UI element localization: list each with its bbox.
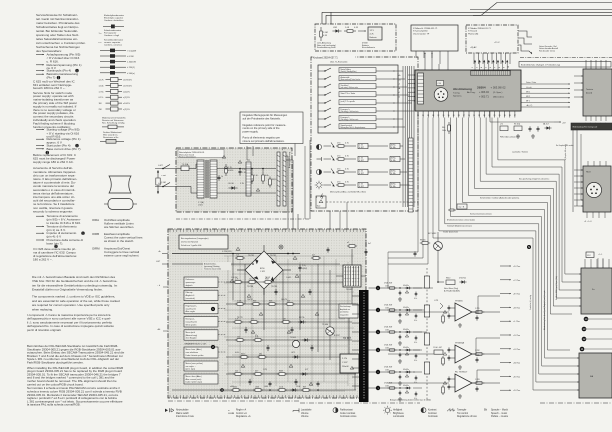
svg-text:+A (+C): +A (+C) [526,104,533,107]
svg-text:Condens. elettrolitico: Condens. elettrolitico [104,19,124,22]
svg-text:+ 003.04: + 003.04 [479,91,489,94]
svg-text:±10/1%: ±10/1% [123,103,130,105]
fuse in power supply [176,163,196,171]
svg-text:(Farbkontrast) Colour contrast: (Farbkontrast) Colour contrast (sabe) [447,218,475,221]
svg-text:p: p [282,149,283,151]
resistor R616 in power supply [225,164,234,176]
svg-text:L666: L666 [264,386,268,388]
svg-text:Bedienfeld (Tab.) 19-A (geh.: Bedienfeld (Tab.) 19-A (geh. 1 Fernbedie… [521,63,560,66]
svg-text:Lautstärke / Volume: Lautstärke / Volume [512,150,528,153]
diode LED in light sensor box [332,27,341,33]
svg-text:+S /7xx: +S /7xx [513,335,521,337]
svg-text:NR 2: NR 2 [526,96,530,98]
op-amp U781 luminance TDA4565 [442,301,485,328]
svg-text:Taul: Taul [317,206,321,208]
svg-text:1.10k: 1.10k [279,387,283,389]
svg-text:Speicherrück: Speicherrück [341,125,353,127]
label: memory wiring note in keyboard [330,191,366,194]
component: max B box on staircase [448,204,467,211]
left column: Italian service paragraph [33,166,77,213]
label: starting current limiting [203,262,231,271]
svg-text:4.7u: 4.7u [414,298,417,300]
svg-text:Ab Prog.: Ab Prog. [467,91,476,94]
capacitor C620 in power supply [218,175,223,180]
svg-text:Vorverstärker TF: Vorverstärker TF [413,32,430,35]
svg-text:A 2/9k (A 2/10) (A3K): A 2/9k (A 2/10) (A3K) [444,290,460,293]
resistors row on regulator rails [233,278,295,375]
svg-text:5: 5 [486,67,488,68]
svg-text:L620: L620 [252,178,254,182]
component key: non-linear resistor entry [102,116,126,128]
labels: board left edge nets [156,250,161,331]
labels on staircase wires [443,150,549,233]
board trace mesh vertical [228,256,348,390]
svg-text:R68: R68 [269,300,272,302]
svg-text:TN 782: TN 782 [270,255,276,257]
svg-text:Farbkontrast: Farbkontrast [340,409,353,412]
svg-text:R610: R610 [446,277,450,279]
svg-text:4762 Rot: 4762 Rot [459,276,466,279]
svg-text:4: 4 [481,67,483,68]
svg-text:Tensione d (corrente): Tensione d (corrente) [204,268,221,271]
svg-text:4.7k: 4.7k [345,182,349,184]
svg-text:(Tab. 71-Rückseite): (Tab. 71-Rückseite) [330,61,348,64]
svg-text:+1 +1: +1 +1 [598,254,602,256]
svg-text:Speech − music: Speech − music [491,413,508,415]
keyboard switch rows with function labels [318,68,414,130]
component key: resistor wattage symbols [100,49,136,75]
left column: arrow checklist German [36,53,82,80]
svg-text:Colour contrast: Colour contrast [340,412,356,415]
wire: mains line 1 with switch [155,165,176,170]
svg-text:Sprache − Musik: Sprache − Musik [491,409,509,412]
svg-text:4k7: 4k7 [255,370,258,372]
svg-text:Start TS o. Seite: Start TS o. Seite [341,92,357,95]
svg-text:Base current drive (Pin 7): Base current drive (Pin 7) [47,147,81,151]
svg-text:Referenz-: Referenz- [186,279,195,281]
left column: arrow checklist Italian [36,214,85,248]
label: light sensor box caption [317,42,376,50]
svg-text:2.7U: 2.7U [240,183,245,185]
svg-text:1.5M: 1.5M [161,182,166,184]
svg-text:100k: 100k [442,130,446,132]
svg-text:Automatik: Automatik [341,76,350,79]
svg-text:Tuning: Tuning [453,93,460,95]
svg-text:12 V: 12 V [370,30,375,32]
svg-text:Rechteckimp.: Rechteckimp. [340,305,351,308]
svg-text:N: N [528,245,530,249]
svg-text:TF4565: TF4565 [455,301,463,303]
terminal circles right of connector [369,286,389,390]
small box F12 above U4 [586,252,603,268]
svg-text:≤ 400mW: ≤ 400mW [127,61,136,64]
svg-text:Fernspul −: Fernspul − [341,117,351,119]
svg-text:C 637: C 637 [342,362,348,364]
IC U631 left input arrows [398,73,416,103]
svg-text:Bei eingebautem (Längsregler): Bei eingebautem (Längsregler) [181,237,209,240]
svg-text:Condens. ceramico: Condens. ceramico [104,43,123,46]
svg-text:47u/63u: 47u/63u [403,307,409,309]
capacitor C625 in power supply [238,160,247,175]
svg-text:Control +A: Control +A [236,412,247,415]
wire: callout leader verticals to power box [247,146,253,160]
svg-text:+ ant: + ant [161,174,166,177]
svg-text:Amplitude an: Amplitude an [340,308,350,311]
svg-text:≤ 0.5W: ≤ 0.5W [127,55,134,58]
svg-text:Nor- (p) (Tuning vertige) fern: Nor- (p) (Tuning vertige) fern. (b) vert… [519,178,549,181]
op-amp U782 TDA4565A [442,342,485,370]
svg-text:4n7: 4n7 [312,255,315,257]
svg-text:Gedämpft (Brightness) (schwarz: Gedämpft (Brightness) (schwarz) [447,225,472,228]
svg-text:R3 1kΩ: R3 1kΩ [514,124,521,126]
svg-text:Luminosità: Luminosità [393,415,405,418]
box: light sensor unit dash-dot enclosure [315,24,396,51]
connector hatched bars at power supply output [277,149,291,206]
wire: ST Audio bottom pin comb [472,53,510,68]
wire: power supply internal rails [217,164,276,193]
IC U2 display module top right [574,60,612,125]
svg-text:250mW: 250mW [342,366,349,368]
wires entering connector from left [352,296,359,386]
wire: keyboard right bus verticals [403,66,414,207]
label strip: Widerstandsplatte bar [571,123,612,130]
legend: colour contrast [333,408,357,419]
label box: Rechteckimpulse note [339,304,358,318]
transformer TR601 in power supply [197,160,217,207]
labels below U3 [584,221,592,223]
IC U631 right output arrows with labels [521,81,570,107]
svg-text:26: 26 [468,115,470,117]
svg-text:as shown in the sketch.: as shown in the sketch. [104,239,134,243]
svg-text:6: 6 [490,67,492,68]
svg-text:1.7 (A): 1.7 (A) [198,201,204,204]
wire: board inner horizontal rails [172,282,356,390]
arrow to battery in light sensor box [358,30,366,31]
svg-text:1.7k SW: 1.7k SW [231,277,238,279]
note box: Bei eingebautem [179,235,228,249]
warning triangles near bridge [230,247,299,283]
svg-text:misure sul primario dell'alime: misure sul primario dell'alimentatore. [243,139,285,143]
svg-text:1.7M: 1.7M [263,369,267,371]
svg-text:Netzteilplatte 29304-090.01: Netzteilplatte 29304-090.01 [179,151,205,154]
svg-text:(vermittels): (vermittels) [340,311,349,314]
svg-text:Mess-/prüf: Mess-/prüf [186,332,196,334]
wire: keyboard bottom to board [330,202,347,229]
svg-text:OIRM: OIRM [92,246,100,250]
svg-text:1.63k: 1.63k [385,348,389,350]
svg-text:TR 66T: TR 66T [343,337,352,340]
terminal circle above bridge [279,245,283,249]
svg-text:±(1)1%: ±(1)1% [123,97,130,99]
svg-text:Schalt nur 1 große Volt: Schalt nur 1 große Volt [181,244,202,247]
svg-text:Volume: Volume [301,416,309,418]
keyboard edge connector ladder [409,138,414,212]
svg-text:ma × B: ma × B [459,206,466,209]
svg-text:ohne Angabe: ohne Angabe [186,337,197,340]
svg-text:TN 779: TN 779 [237,317,243,319]
svg-text:1k: 1k [249,278,251,280]
svg-text:(board): (board) [586,91,592,94]
sketch: barrel corrected picture [104,199,137,210]
svg-text:29: 29 [453,115,455,117]
svg-text:♂ b: ♂ b [157,284,160,287]
svg-text:+U /7xx: +U /7xx [513,349,521,351]
svg-text:TN 781: TN 781 [248,255,254,257]
svg-text:zum selektiven: zum selektiven [186,351,199,354]
svg-text:4.18k: 4.18k [391,160,396,162]
IC U4 RGB module upper [572,259,612,314]
svg-text:Interruttore di rete: Interruttore di rete [176,415,195,418]
svg-text:C10: C10 [438,83,441,85]
svg-text:when replacing.: when replacing. [32,308,53,312]
component key: wirewound resistor entry [100,131,124,143]
svg-text:1k5: 1k5 [287,300,290,302]
svg-text:Volume: Volume [301,413,309,415]
svg-text:10: 10 [508,66,510,68]
svg-text:4.18k: 4.18k [391,147,396,149]
svg-text:H103: H103 [586,172,591,174]
svg-text:(D. Spez.): (D. Spez.) [493,92,503,94]
svg-text:4n7: 4n7 [368,243,371,245]
label box: regulator note 5 [184,330,226,340]
svg-text:secondo lo schema seguente:: secondo lo schema seguente: [33,209,73,213]
left column: English service paragraph [33,91,77,129]
svg-text:Regelspann-: Regelspann- [186,305,198,307]
svg-text:power supply.: power supply. [243,129,259,133]
svg-text:1.63k: 1.63k [385,308,389,310]
label: alignment note bottom [390,399,431,402]
legend: tone control [447,409,478,419]
wire: mains line 2 with switch [155,183,176,188]
svg-text:RA: RA [590,375,594,378]
svg-text:+15 V: +15 V [494,42,500,44]
svg-text:esterne come negli schemi.: esterne come negli schemi. [104,253,139,257]
svg-text:2: 2 [590,123,591,125]
svg-text:4.7k: 4.7k [345,143,349,145]
svg-text:Großer (Dark) Taste: Großer (Dark) Taste [443,230,458,233]
svg-text:LDR: LDR [333,27,338,29]
svg-text:T 3.15A: T 3.15A [182,163,189,166]
svg-text:1.781: 1.781 [475,308,480,310]
svg-text:1.10k L.467: 1.10k L.467 [433,347,442,349]
left column: German service note paragraph [36,13,86,53]
svg-text:Ersatzfall dürfen nur Original: Ersatzfall dürfen nur Originalteile Verw… [32,288,103,292]
choke L620 tall component in power supply [246,162,254,196]
svg-text:GRABBER BUS C 63T: GRABBER BUS C 63T [184,343,207,346]
svg-text:1.10k: 1.10k [475,355,479,357]
svg-text:L-O: L-O [158,183,162,185]
svg-text:36: 36 [417,115,419,117]
svg-text:20: 20 [499,115,501,117]
svg-text:1.63k: 1.63k [385,386,389,388]
svg-text:2.2u: 2.2u [242,169,246,171]
IC U3 DIN socket module right [574,161,611,218]
svg-text:1.7k: 1.7k [236,255,239,257]
svg-text:47u/63u: 47u/63u [403,369,409,371]
svg-text:B 8237: B 8237 [334,335,340,337]
svg-text:+B),A2: +B),A2 [470,46,477,49]
component key: resistor tolerance symbols [99,78,133,112]
svg-text:L 601: L 601 [198,205,203,207]
svg-text:(Mercedes): (Mercedes) [493,96,504,99]
label box: bottom memory note [184,374,218,384]
svg-text:OIRA: OIRA [92,218,99,222]
svg-text:ST Audio 29304-011.71: ST Audio 29304-011.71 [468,27,492,30]
svg-text:Piastra alimentatore: Piastra alimentatore [179,156,196,159]
svg-text:1.5M: 1.5M [323,32,328,34]
svg-text:L.781: L.781 [434,300,438,302]
resistor R620 in power supply [269,177,277,188]
svg-text:Mess- über (Abw.): Mess- über (Abw.) [186,375,203,378]
label box: regulator note 1 [184,277,226,287]
capacitor C622 at bridge output [299,264,308,283]
svg-text:e2: e2 [398,97,400,99]
svg-text:25: 25 [473,115,475,117]
svg-text:31: 31 [443,115,445,117]
svg-text:OIRB: OIRB [92,232,99,236]
svg-text:270/4.7kW: 270/4.7kW [384,327,392,329]
keyboard pots: volume/brightness/contrast/colour [324,143,410,189]
svg-text:Resistenza a filo: Resistenza a filo [103,136,119,139]
RC network rows after terminals [384,283,422,402]
label: graphic note [556,145,573,147]
wire: power board lower dash-dot link [176,218,310,220]
svg-text:28: 28 [458,115,460,117]
svg-text:c/d: c/d [398,79,400,81]
svg-text:4.7k: 4.7k [345,169,349,171]
label strip: Bedienteil scale bar [519,62,611,68]
svg-text:TF4565A: TF4565A [455,342,465,345]
svg-text:1M: 1M [99,103,102,105]
svg-text:Mains switch: Mains switch [176,412,190,415]
svg-text:±10%/5%: ±10%/5% [123,80,132,82]
svg-text:tung prüfen: tung prüfen [340,313,349,316]
svg-text:R66: R66 [253,300,256,302]
label box: regulator note 4 [184,317,226,327]
svg-text:±10%/5%: ±10%/5% [123,85,132,87]
svg-text:(je) b. (spu): (je) b. (spu) [185,369,195,371]
svg-text:4.18T: 4.18T [359,186,365,188]
svg-text:Contrasto: Contrasto [428,415,439,418]
left column: PAL/SECAM Italian paragraph [27,386,123,407]
svg-text:Ton control: Ton control [457,412,469,415]
svg-text:270/4.7kW: 270/4.7kW [384,283,392,285]
svg-text:3: 3 [477,67,479,68]
resistor 1.5M in light sensor box [344,27,359,32]
svg-text:18: 18 [509,115,511,117]
capacitors on board rails [245,289,314,385]
svg-text:≈ 0.5(2)W: ≈ 0.5(2)W [127,49,136,52]
svg-text:Netzschalter: Netzschalter [176,409,189,412]
numbered terminal 1 on board [211,307,215,311]
svg-text:1.783: 1.783 [475,379,480,381]
svg-text:supply range 180 to 262 V AC.: supply range 180 to 262 V AC. [33,160,74,164]
svg-text:29304: 29304 [477,86,486,90]
svg-text:23: 23 [483,115,485,117]
svg-text:2: 2 [472,67,474,68]
svg-text:ST-Anschl. 29304-011.71: ST-Anschl. 29304-011.71 [413,27,438,30]
svg-text:+D /7xx: +D /7xx [513,266,521,268]
svg-text:Dabei l prüfen (spu): Dabei l prüfen (spu) [186,381,203,384]
svg-text:TA 60T: TA 60T [265,276,270,279]
svg-text:0.47u: 0.47u [235,352,239,354]
svg-text:Dabei Lötseite prüfen: Dabei Lötseite prüfen [186,354,204,357]
svg-text:Tastatur: Tastatur [586,88,593,91]
wire: board inner vertical feeders [233,254,330,361]
legend: volume [293,408,312,418]
svg-text:4.18k: 4.18k [391,186,396,188]
svg-text:1.63k: 1.63k [385,370,389,372]
board border tick comb bottom [170,395,364,398]
svg-text:47u/63u: 47u/63u [403,347,409,349]
wire: mains rail across board top [172,251,300,254]
svg-text:(vermittels): (vermittels) [186,297,196,300]
svg-text:Lautstärke: Lautstärke [301,409,312,412]
svg-text:1.63k: 1.63k [385,286,389,288]
wire: ST-Anschl bottom pins [416,51,448,64]
svg-text:160-716: 160-716 [281,299,287,301]
svg-text:Netz- Mess (Reg): Netz- Mess (Reg) [444,287,458,290]
svg-text:+ 003.09/ 02: + 003.09/ 02 [491,86,507,90]
svg-text:Ot: Ot [484,409,487,412]
svg-text:ung (V) prim: ung (V) prim [186,307,197,310]
left column: Italian C626 note [33,247,77,261]
svg-text:4.18T: 4.18T [359,173,365,175]
svg-text:b (Graphic HN versch): b (Graphic HN versch) [565,144,567,160]
svg-text:6.2T: 6.2T [305,369,308,371]
svg-text:TN 784: TN 784 [247,286,253,288]
svg-text:R672: R672 [241,353,245,355]
svg-text:1 n625: 1 n625 [286,277,291,279]
svg-text:M 626: M 626 [228,170,233,172]
wire: board top secondary rail [172,263,340,265]
svg-text:R6/71k: R6/71k [299,317,305,319]
svg-text:auf der Primärseite des Netzte: auf der Primärseite des Netzteils. [243,116,281,120]
svg-text:a/b: a/b [398,75,401,77]
svg-text:1k2: 1k2 [235,370,238,372]
IC U631 bottom pin fan [417,111,516,118]
svg-text:1.782: 1.782 [475,350,480,352]
svg-text:Dreh/st mit Netzteil: Dreh/st mit Netzteil [181,241,198,244]
bridge rectifier GL621 diamond [237,245,291,295]
resistor in light sensor box [320,27,328,41]
svg-text:ST preamplifier: ST preamplifier [413,30,428,33]
svg-text:(auf) T.2 o prells: (auf) T.2 o prells [341,101,355,103]
svg-text:R6T: R6T [303,387,306,389]
svg-text:4.7k: 4.7k [345,156,349,158]
component box C637 power resistor [340,354,359,373]
svg-text:2.2u: 2.2u [302,265,306,267]
board border tick comb top [170,229,364,232]
rotated net labels on feeder bundle [529,276,558,330]
svg-text:Abw. regler: Abw. regler [186,310,196,313]
svg-text:+F +1 +U: +F +1 +U [584,221,592,223]
transistor BC548C [414,232,443,268]
svg-text:Suchlauf: Suchlauf [341,85,349,87]
legend: control +A [228,408,251,418]
op-amp U783 RC TB MJLT [442,372,485,399]
svg-text:180 a 262 V ~.: 180 a 262 V ~. [33,257,53,261]
svg-text:Abstimmung: Abstimmung [453,87,472,91]
svg-text:L672: L672 [291,352,295,354]
svg-text:Abgleich 6: Abgleich 6 [186,294,195,297]
svg-text:+5: +5 [398,84,400,86]
svg-text:+L /7xx: +L /7xx [513,321,521,323]
svg-text:pezzi di ricambio originali.: pezzi di ricambio originali. [27,328,62,332]
svg-text:bereich 180 bis 262 V ~.: bereich 180 bis 262 V ~. [33,86,66,90]
inductor L467 at op-amp 2 input [433,347,443,354]
svg-text:1.63k: 1.63k [385,330,389,332]
